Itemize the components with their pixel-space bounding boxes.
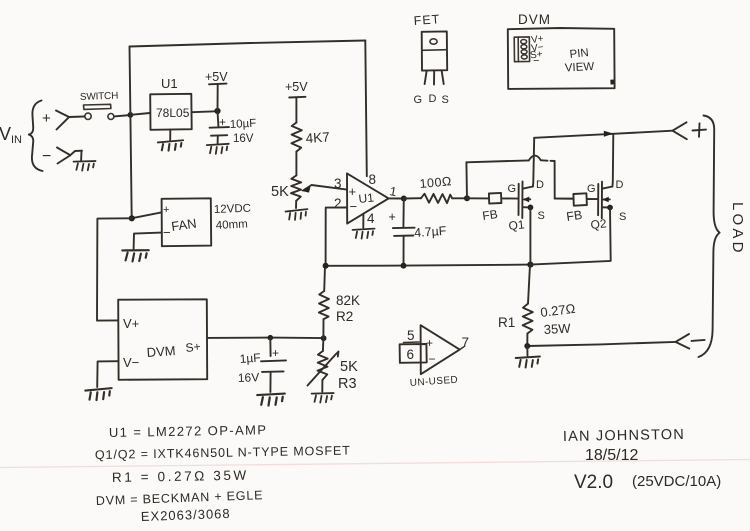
wire op-amp output — [389, 197, 404, 199]
ruled pink line — [0, 460, 750, 468]
node R2/R3/DVM junction — [321, 335, 327, 341]
svg-text:16V: 16V — [238, 370, 260, 385]
wire top-left rail — [130, 41, 366, 47]
svg-text:+5V: +5V — [285, 80, 308, 94]
node VIN label — [0, 124, 22, 146]
svg-text:IN: IN — [11, 134, 22, 146]
svg-text:+: + — [163, 204, 169, 216]
connector + out — [673, 122, 707, 139]
regulator ground pin — [169, 130, 171, 141]
svg-text:V−: V− — [123, 355, 139, 370]
svg-text:DVM: DVM — [518, 12, 551, 27]
svg-text:100Ω: 100Ω — [419, 174, 452, 191]
node gate node junction — [464, 195, 470, 201]
wire FAN plus — [132, 212, 161, 218]
svg-text:−: − — [163, 225, 171, 240]
svg-text:4: 4 — [367, 211, 375, 226]
node R1 bottom — [524, 343, 530, 349]
svg-text:16V: 16V — [233, 133, 254, 145]
wire DVM V+ — [97, 218, 132, 320]
node regulator output junction — [214, 108, 220, 114]
node Q1 source — [528, 205, 534, 211]
node Q2 source — [607, 205, 613, 211]
wire R1 to ground — [526, 346, 528, 356]
wire Q2 source down and left — [530, 208, 610, 265]
wire switch to junction — [114, 115, 129, 116]
wire right vertical to op-amp pin 8 — [365, 41, 367, 177]
svg-text:40mm: 40mm — [216, 218, 249, 232]
wire R1 node to minus connector — [527, 342, 675, 346]
VIN minus terminal — [42, 148, 82, 166]
capacitor C3 4.7uF — [389, 199, 415, 266]
svg-text:U1 = LM2272 OP-AMP: U1 = LM2272 OP-AMP — [109, 422, 268, 440]
svg-text:U1: U1 — [161, 76, 178, 91]
svg-text:PIN: PIN — [569, 47, 589, 61]
svg-text:D: D — [536, 179, 544, 191]
capacitor C2 1uF 16V — [261, 338, 286, 392]
svg-text:18/5/12: 18/5/12 — [585, 447, 638, 464]
svg-text:35W: 35W — [543, 321, 571, 337]
svg-text:D: D — [429, 93, 437, 105]
wire DVM S+ output — [207, 337, 323, 340]
resistor R2 82K — [319, 266, 329, 338]
op-amp U1a triangle — [347, 173, 389, 223]
svg-text:U1: U1 — [358, 190, 375, 206]
connector - out — [676, 334, 705, 349]
FET package drawing — [413, 12, 449, 106]
ground (op-amp) — [353, 229, 375, 239]
ferrite bead FB2 — [573, 193, 587, 205]
resistor 4K7 — [285, 80, 308, 175]
svg-text:DVM: DVM — [146, 343, 176, 360]
ferrite bead FB1 — [489, 193, 502, 204]
svg-text:EX2063/3068: EX2063/3068 — [141, 506, 231, 524]
node +5V rail A — [205, 70, 228, 111]
wire to capacitor C1 — [217, 111, 220, 126]
svg-text:V2.0: V2.0 — [574, 472, 613, 493]
node switch junction — [127, 112, 133, 118]
wire to FB1 — [467, 197, 489, 199]
LOAD brace — [699, 116, 720, 358]
svg-text:+5V: +5V — [205, 70, 228, 84]
potentiometer R3 5K — [308, 338, 339, 391]
svg-text:FET: FET — [413, 12, 441, 28]
wire FAN minus — [134, 233, 162, 249]
transistor Q1 — [519, 182, 533, 219]
wire junction to regulator — [131, 113, 150, 115]
svg-text:2: 2 — [334, 196, 342, 211]
node 1uF junction — [268, 335, 274, 341]
ground (C2) — [257, 394, 285, 406]
switch S1 contact circles — [85, 113, 91, 119]
wire Q1 source down — [529, 207, 531, 264]
VIN brace — [29, 101, 43, 172]
svg-text:Q2: Q2 — [590, 216, 608, 232]
wire FB2 lead — [555, 198, 574, 200]
svg-text:+: + — [42, 110, 51, 127]
svg-text:D: D — [616, 179, 624, 191]
svg-text:5: 5 — [407, 328, 415, 343]
wire feedback rail — [326, 265, 531, 266]
svg-text:−: − — [42, 148, 51, 165]
svg-text:Q1: Q1 — [508, 217, 526, 233]
wire Q1 drain up — [533, 138, 534, 187]
DVM1 box — [118, 299, 207, 380]
svg-text:82K: 82K — [336, 293, 360, 308]
wire regulator output — [192, 110, 216, 113]
svg-text:IAN JOHNSTON: IAN JOHNSTON — [563, 427, 685, 445]
DVM pin view drawing — [508, 12, 615, 89]
svg-text:R1 = 0.27Ω 35W: R1 = 0.27Ω 35W — [112, 468, 249, 485]
svg-text:8: 8 — [369, 172, 377, 187]
svg-text:S: S — [442, 94, 449, 106]
wire pin2 to rail — [326, 208, 347, 266]
svg-text:(25VDC/10A): (25VDC/10A) — [632, 473, 721, 490]
switch bar — [84, 104, 111, 109]
regulator U1 78L05 box — [150, 94, 192, 130]
ground (regulator) — [158, 140, 184, 151]
svg-text:LOAD: LOAD — [729, 202, 746, 256]
svg-text:10µF: 10µF — [230, 118, 257, 131]
svg-text:7: 7 — [462, 335, 470, 350]
resistor 100R — [404, 194, 466, 203]
ground (R1) — [516, 357, 540, 368]
junction arrow on rail — [604, 131, 614, 137]
potentiometer 5K (set) — [291, 175, 347, 208]
svg-text:G: G — [508, 183, 517, 195]
capacitor C1 10uF 16V — [210, 115, 229, 143]
resistor R1 0.27R 35W — [523, 265, 533, 346]
transistor Q2 — [598, 182, 612, 219]
svg-text:VIEW: VIEW — [565, 61, 595, 75]
ground (5K pot) — [285, 209, 307, 220]
svg-text:−: − — [533, 55, 539, 67]
wire DVM V- — [97, 361, 118, 387]
svg-text:78L05: 78L05 — [156, 106, 190, 120]
ground (VIN minus) — [73, 160, 95, 171]
svg-text:R1: R1 — [498, 315, 515, 330]
wire gate node up and over — [466, 156, 573, 199]
svg-text:G: G — [414, 94, 423, 106]
svg-text:SWITCH: SWITCH — [80, 91, 119, 103]
svg-text:G: G — [587, 183, 596, 195]
wire left vertical — [130, 47, 132, 219]
svg-text:S: S — [619, 211, 626, 223]
wire FB1 to gate — [501, 197, 518, 199]
ground (R3) — [311, 392, 333, 403]
node rail right — [527, 262, 533, 268]
svg-text:5K: 5K — [340, 359, 358, 375]
ground (DVM V-) — [85, 388, 112, 400]
svg-text:V: V — [0, 124, 11, 144]
svg-text:V+: V+ — [123, 316, 139, 331]
svg-text:5K: 5K — [271, 184, 289, 200]
op-amp U1b unused — [400, 325, 469, 374]
ground (FAN) — [122, 249, 149, 262]
ground (C1) — [207, 144, 229, 154]
svg-text:+: + — [389, 210, 396, 224]
wire top plus rail — [534, 131, 672, 138]
wire Q2 drain up — [611, 134, 614, 187]
svg-text:3: 3 — [334, 176, 342, 191]
node rail left — [323, 263, 329, 269]
svg-text:S: S — [538, 210, 545, 222]
op-amp pin 4 — [362, 214, 364, 228]
svg-text:R2: R2 — [336, 309, 353, 324]
svg-text:−: − — [429, 352, 436, 366]
svg-text:−: − — [350, 199, 358, 214]
svg-text:12VDC: 12VDC — [214, 203, 251, 216]
svg-text:+: + — [272, 346, 279, 360]
svg-text:1µF: 1µF — [239, 351, 261, 366]
node FAN junction — [129, 215, 135, 221]
svg-text:FB: FB — [565, 208, 583, 224]
fan M1 box — [162, 198, 212, 246]
svg-text:S+: S+ — [185, 339, 201, 354]
node output junction — [401, 196, 407, 202]
svg-text:6: 6 — [407, 347, 415, 362]
svg-text:FB: FB — [481, 207, 498, 223]
node rail cap — [401, 263, 407, 269]
svg-text:4K7: 4K7 — [305, 129, 330, 146]
svg-text:+: + — [426, 336, 433, 350]
wire FB2 to gate — [587, 198, 598, 200]
svg-text:4.7µF: 4.7µF — [414, 224, 447, 240]
VIN plus terminal — [42, 110, 84, 130]
svg-text:R3: R3 — [338, 376, 357, 392]
svg-text:+: + — [349, 184, 357, 199]
